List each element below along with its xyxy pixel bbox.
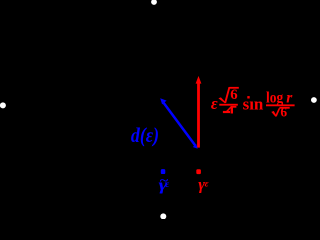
svg-text:6: 6 [230,87,237,103]
node right (white dot, right of ellipse) [311,97,317,103]
wire fraction bar 2 [266,104,295,106]
radical sign 1 [218,87,238,103]
svg-text:r: r [286,89,293,106]
svg-text:ε: ε [205,180,209,190]
node bottom (white dot, bottom of ellipse) [160,213,166,219]
svg-text:d(ε): d(ε) [131,123,159,147]
wire blue double arrow d(epsilon) [160,98,198,148]
node left (white dot, left of ellipse) [0,102,6,108]
svg-text:ε: ε [211,94,218,113]
svg-text:6: 6 [280,104,287,119]
wire fraction bar 1 [219,104,238,106]
node top (white dot, top of ellipse) [151,0,157,5]
node red dot marker [196,169,201,174]
svg-text:sın: sın [243,94,264,113]
label gamma tilde epsilon (blue) [159,172,170,194]
label gamma epsilon (red) [198,177,208,194]
svg-text:ε: ε [165,180,169,190]
radical sign 2 [271,107,289,117]
denominator glyph 1 (4-like) [223,106,237,114]
node blue dot marker [161,169,166,174]
wire red vertical arrow [196,76,202,148]
